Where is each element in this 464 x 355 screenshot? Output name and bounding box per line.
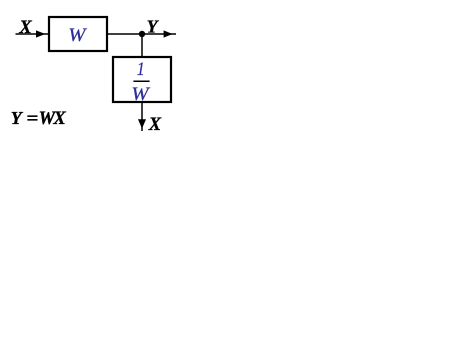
svg-text:X: X (18, 18, 32, 38)
svg-text:X: X (52, 109, 66, 129)
svg-text:=: = (27, 110, 39, 130)
svg-text:W: W (131, 85, 150, 105)
svg-text:W: W (68, 26, 87, 46)
svg-text:1: 1 (137, 59, 145, 80)
svg-text:X: X (148, 115, 162, 135)
